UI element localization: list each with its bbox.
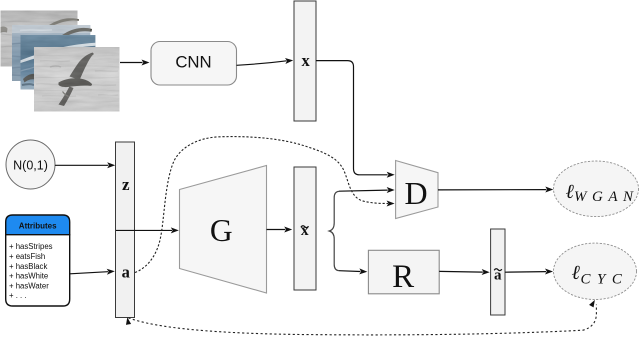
- svg-text:x: x: [301, 51, 310, 70]
- svg-text:CNN: CNN: [175, 53, 211, 72]
- attributes box: [6, 215, 70, 306]
- node x~ bar: [294, 167, 316, 290]
- photo stack image 4 (front, light gray sea with albatross): [34, 47, 120, 112]
- wire attributes to a: [70, 268, 115, 274]
- svg-text:Attributes: Attributes: [19, 222, 57, 231]
- svg-text:z: z: [122, 175, 130, 194]
- wire a~ to CYC loss: [505, 269, 553, 275]
- svg-text:N(0,1): N(0,1): [13, 159, 48, 173]
- svg-text:+ eatsFish: + eatsFish: [9, 252, 45, 261]
- svg-text:+ hasWater: + hasWater: [9, 282, 49, 291]
- wire photos to CNN: [120, 60, 150, 66]
- wire x~ fork to D: [339, 187, 395, 193]
- discriminator D trapezoid: [396, 161, 438, 219]
- photo stack image 2 (blue sea with flying bird): [12, 25, 92, 81]
- wire z+a to G: [116, 227, 179, 233]
- wire D to WGAN loss: [438, 187, 553, 193]
- svg-text:x: x: [301, 222, 309, 239]
- fork brace from x~: [329, 191, 339, 270]
- svg-text:a: a: [122, 263, 130, 282]
- svg-text:WGAN: WGAN: [574, 189, 639, 205]
- wire x~ fork to R: [339, 268, 367, 274]
- svg-text:CYC: CYC: [581, 271, 629, 287]
- CNN box: [151, 42, 237, 86]
- wire R to a~: [439, 269, 490, 275]
- albatross: [70, 53, 95, 81]
- svg-text:+ hasWhite: + hasWhite: [9, 272, 48, 281]
- dotted wire a over G to D: [135, 137, 395, 273]
- node WGAN loss ellipse: [554, 161, 639, 217]
- node a~ bar: [491, 229, 505, 315]
- node CYC loss ellipse: [554, 243, 637, 299]
- dashed feedback wire CYC loss to z/a bar: [125, 299, 597, 335]
- svg-text:ℓ: ℓ: [572, 262, 581, 284]
- wire CNN to x: [237, 57, 294, 65]
- svg-text:G: G: [210, 213, 233, 248]
- wire G to x~: [267, 227, 293, 233]
- svg-text:+ hasStripes: + hasStripes: [9, 242, 53, 251]
- svg-text:D: D: [404, 175, 427, 211]
- node N(0,1): [6, 140, 55, 189]
- svg-text:R: R: [392, 259, 414, 295]
- regressor R box: [368, 250, 439, 295]
- photo stack image 1 (back, gray sea with bird wing): [1, 11, 80, 67]
- generator G trapezoid: [180, 166, 267, 294]
- svg-text:+ hasBlack: + hasBlack: [9, 262, 47, 271]
- wire x to D: [316, 61, 395, 178]
- node z/a bar: [116, 142, 135, 318]
- wire N(0,1) to z: [55, 162, 115, 168]
- photo stack image 3 (dark blue sea, foam crest): [21, 35, 96, 90]
- node x bar: [294, 1, 316, 121]
- svg-text:+ . . .: + . . .: [9, 291, 27, 300]
